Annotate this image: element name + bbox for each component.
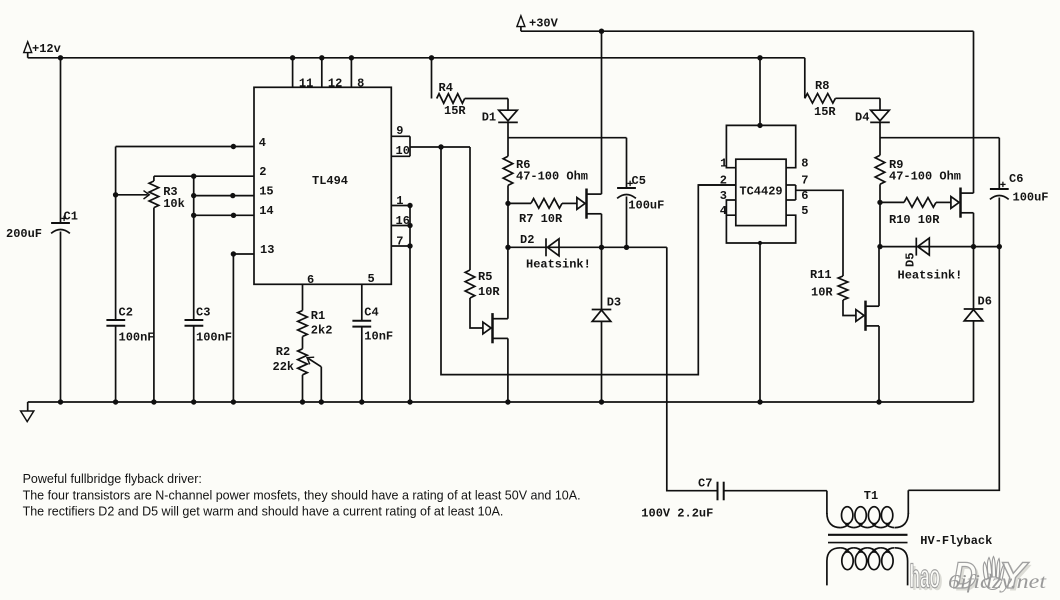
wire to C6 top	[998, 138, 1000, 189]
wire pin 2	[154, 175, 254, 177]
wire R3 bottom to ground	[153, 208, 155, 402]
ground symbol	[21, 411, 34, 422]
note text paragraph	[23, 472, 581, 519]
wire switch node to C7	[667, 247, 717, 490]
wire TC4429 pin 2 input	[698, 184, 736, 186]
junction ground C1	[58, 399, 63, 404]
wire TC4429 ground bracket pins 4-5	[726, 215, 795, 243]
svg-text:47-100 Ohm: 47-100 Ohm	[889, 170, 961, 184]
wire R7 to Q1 gate	[562, 202, 577, 204]
junction Q3 source node	[971, 244, 976, 249]
wire +12v to R4	[431, 58, 433, 99]
svg-text:D3: D3	[607, 296, 621, 310]
wire tc pins 6-7 tie	[795, 185, 797, 200]
junction pin 2 / C3 column	[191, 174, 196, 179]
svg-text:15R: 15R	[444, 104, 466, 118]
diode D4	[870, 110, 890, 122]
wire +30V to Q1 drain	[601, 31, 603, 194]
resistor R7	[531, 199, 562, 209]
wire +12v to TC4429 VDD	[759, 58, 761, 126]
wire ground stub	[27, 402, 29, 411]
power flag +30V	[517, 16, 525, 27]
svg-text:5: 5	[368, 272, 375, 286]
potentiometer R2	[298, 349, 308, 375]
junction pin12 on +12v rail	[319, 55, 324, 60]
svg-text:4: 4	[720, 204, 727, 218]
resistor R1	[298, 311, 308, 337]
junction ground R2 wiper	[319, 399, 324, 404]
svg-text:22k: 22k	[273, 360, 295, 374]
wire pin 13	[233, 253, 254, 255]
wire pin 16 stub	[391, 225, 410, 227]
resistor R8	[805, 94, 836, 104]
svg-text:15: 15	[259, 185, 273, 199]
wire +30V to Q3 drain	[973, 31, 975, 193]
svg-text:C4: C4	[364, 306, 378, 320]
capacitor C1	[51, 216, 70, 234]
wire R6 to switch node	[507, 185, 509, 247]
junction ground R2	[300, 399, 305, 404]
svg-text:9: 9	[396, 124, 403, 138]
junction R3 wiper to C2 column	[113, 192, 118, 197]
wire pin 11 to +12v	[292, 58, 294, 88]
junction TC4429 VDD on +12v rail	[757, 55, 762, 60]
wire Q4 source to ground	[878, 326, 880, 402]
junction R9/Q4 drain	[877, 244, 882, 249]
junction ground D3	[599, 399, 604, 404]
svg-text:4: 4	[259, 136, 266, 150]
wire TC4429 VDD bracket pins 1-8	[726, 125, 795, 167]
wire T1 primary right lead	[907, 490, 909, 514]
svg-text:100nF: 100nF	[196, 331, 232, 345]
transistor Q3	[951, 188, 974, 218]
svg-text:2: 2	[259, 165, 266, 179]
transistor Q4	[856, 301, 879, 331]
wire pins 1-16-7 to ground	[409, 206, 411, 403]
svg-text:47-100 Ohm: 47-100 Ohm	[516, 170, 588, 184]
wire Q2 drain to switch node	[507, 247, 509, 318]
svg-text:+12v: +12v	[32, 42, 61, 56]
capacitor C2	[106, 320, 125, 326]
diode D1	[498, 110, 518, 122]
wire C6 to right switch node	[998, 198, 1000, 247]
wire pin 10 stub	[391, 155, 410, 157]
resistor R10	[904, 198, 936, 208]
svg-text:100uF: 100uF	[1013, 191, 1049, 205]
svg-text:C6: C6	[1009, 172, 1023, 186]
watermark haoDIY.net	[910, 555, 1047, 599]
junction ground pin13	[231, 399, 236, 404]
junction pin 16	[407, 223, 412, 228]
capacitor C5	[617, 181, 636, 199]
junction Q1 drain on +30V rail	[599, 29, 604, 34]
capacitor C3	[185, 320, 204, 326]
junction ground TC4429	[757, 399, 762, 404]
wire TC4429 to ground	[759, 243, 761, 402]
svg-text:10R: 10R	[811, 286, 833, 300]
wire pin 1 stub	[391, 205, 410, 207]
svg-text:R10 10R: R10 10R	[889, 213, 940, 227]
resistor R11	[838, 276, 848, 300]
wire pin 5 to C4	[361, 284, 363, 321]
wire C1 to ground	[60, 232, 62, 403]
junction pin 1	[407, 203, 412, 208]
wire output to R5	[469, 147, 471, 270]
diode D6	[964, 309, 984, 321]
junction pin 15 / C3 column	[191, 193, 196, 198]
svg-text:100uF: 100uF	[628, 199, 664, 213]
wire C5 to switch node	[626, 197, 628, 248]
svg-text:200uF: 200uF	[6, 227, 42, 241]
wire right switch node to T1	[908, 247, 999, 491]
wire output node	[410, 146, 470, 148]
svg-text:2k2: 2k2	[311, 324, 333, 338]
wire pin 8 to +12v	[350, 58, 352, 88]
svg-text:R2: R2	[276, 345, 290, 359]
svg-text:Poweful fullbridge flyback dri: Poweful fullbridge flyback driver:	[23, 472, 202, 486]
wire right switch node to D6	[973, 247, 975, 309]
IC U1 TL494 body	[254, 87, 391, 284]
wire D3 to ground	[601, 321, 603, 402]
wire C3 column	[193, 176, 195, 320]
wire switch node to D3	[601, 247, 603, 309]
junction pin 7	[407, 243, 412, 248]
junction ground pins 1-16-7	[407, 399, 412, 404]
svg-text:The four transistors are N-cha: The four transistors are N-channel power…	[23, 489, 581, 503]
svg-text:7: 7	[396, 234, 403, 248]
junction Q1 source node	[599, 245, 604, 250]
diode D2	[546, 238, 559, 256]
wire R11 to Q4 gate	[843, 300, 855, 316]
svg-text:Heatsink!: Heatsink!	[526, 258, 591, 272]
svg-text:R8: R8	[815, 79, 829, 93]
wire Q1 source to switch node	[601, 214, 603, 248]
svg-text:D6: D6	[978, 295, 992, 309]
wire pin 9 stub	[391, 135, 410, 137]
wire to C5 top	[626, 138, 628, 188]
potentiometer R3	[149, 181, 159, 208]
wire +30V rail	[521, 30, 974, 32]
junction TC4429 ground	[758, 241, 762, 245]
svg-text:6: 6	[307, 273, 314, 287]
junction R6/Q2 drain	[505, 245, 510, 250]
wire R1 to R2	[302, 337, 304, 349]
diode D3	[592, 310, 612, 322]
svg-text:14: 14	[259, 204, 273, 218]
wire bootstrap to C6	[880, 137, 999, 139]
svg-text:7: 7	[801, 173, 808, 187]
svg-text:+30V: +30V	[529, 17, 559, 31]
junction on pin 4 wire	[231, 144, 236, 149]
junction C1 on +12v rail	[58, 55, 63, 60]
svg-text:12: 12	[328, 76, 342, 90]
capacitor C6	[990, 182, 1009, 200]
wire Q3 source to right switch node	[973, 213, 975, 247]
wire R8 to D4	[835, 97, 880, 99]
wire pin2 to R3 top	[153, 176, 155, 181]
wire C2 to ground	[115, 326, 117, 402]
wire Q4 drain to right switch node	[878, 247, 880, 307]
svg-text:5: 5	[801, 204, 808, 218]
junction R4 on +12v rail	[429, 55, 434, 60]
svg-text:C3: C3	[196, 306, 210, 320]
resistor R4	[437, 94, 465, 104]
wire ground rail	[28, 401, 974, 403]
svg-text:T1: T1	[864, 489, 878, 503]
junction pin8 on +12v rail	[349, 55, 354, 60]
wire to D4 anode	[879, 98, 881, 110]
junction C5 node	[624, 245, 629, 250]
wire R10 to Q3 gate	[936, 201, 951, 203]
svg-text:10k: 10k	[163, 197, 185, 211]
inductor T1 secondary winding	[827, 548, 908, 586]
wire TL494 output to TC4429 input	[441, 147, 736, 375]
svg-text:D2: D2	[520, 233, 534, 247]
svg-text:TC4429: TC4429	[739, 185, 782, 199]
wire T1 primary left lead	[826, 491, 828, 514]
svg-text:R7 10R: R7 10R	[519, 212, 563, 226]
svg-text:16: 16	[396, 214, 410, 228]
wire C4 to ground	[361, 327, 363, 402]
wire pin 4	[116, 146, 254, 148]
wire Q2 source to ground	[507, 338, 509, 402]
transistor Q1	[577, 189, 602, 219]
junction TC4429 VDD	[757, 123, 762, 128]
wire pin 13 to ground	[232, 254, 234, 402]
svg-text:15R: 15R	[814, 105, 836, 119]
inductor T1 primary winding	[827, 507, 908, 528]
junction C6 node	[997, 244, 1002, 249]
junction R6/R7	[505, 201, 510, 206]
junction on pin 14 wire	[231, 213, 236, 218]
svg-text:1: 1	[396, 194, 403, 208]
svg-text:C7: C7	[698, 477, 712, 491]
junction pin 14 / C3 column	[191, 213, 196, 218]
wire D4 to R9	[879, 123, 881, 156]
wire bootstrap to C5	[508, 137, 627, 139]
svg-text:2: 2	[720, 173, 727, 187]
junction pin11 on +12v rail	[290, 55, 295, 60]
svg-text:1: 1	[720, 156, 727, 170]
wire pin 7 stub	[391, 245, 410, 247]
svg-text:10R: 10R	[478, 285, 500, 299]
wire C3 to ground	[193, 326, 195, 402]
wire R4 to D1	[465, 98, 508, 100]
diode D5	[916, 238, 929, 256]
wire +12v rail	[28, 57, 805, 59]
junction on pin 15 wire	[230, 193, 235, 198]
svg-text:13: 13	[260, 243, 274, 257]
wire R2 to ground	[302, 375, 304, 402]
wire R5 to Q2 gate	[470, 298, 482, 328]
transformer T1 core	[828, 535, 908, 543]
transistor Q2	[483, 313, 508, 343]
wire TC4429 pins 3-4	[726, 200, 735, 215]
svg-text:HV-Flyback: HV-Flyback	[920, 534, 992, 548]
svg-text:C1: C1	[64, 210, 78, 224]
junction output to TC4429	[438, 144, 443, 149]
wire pins 9-10 tie	[409, 136, 411, 156]
junction ground C3	[191, 399, 196, 404]
capacitor C7	[718, 482, 724, 501]
svg-text:Heatsink!: Heatsink!	[898, 269, 963, 283]
wire to D1 anode	[507, 99, 509, 111]
wire right switch node B	[880, 246, 999, 248]
junction ground Q2 source	[505, 399, 510, 404]
wire pin 6 to R1	[302, 284, 304, 310]
svg-text:8: 8	[357, 76, 364, 90]
svg-text:R11: R11	[810, 268, 832, 282]
wire pin 12 to +12v	[321, 58, 323, 88]
svg-text:C2: C2	[119, 306, 133, 320]
svg-text:10nF: 10nF	[364, 330, 393, 344]
svg-text:10: 10	[396, 144, 410, 158]
wire +12v to R8	[804, 58, 806, 99]
svg-text:TL494: TL494	[312, 174, 348, 188]
junction ground R3	[151, 399, 156, 404]
svg-text:100nF: 100nF	[119, 331, 155, 345]
wire switch node A	[508, 246, 667, 248]
svg-text:C5: C5	[632, 174, 646, 188]
wire tc pin 7 stub	[786, 184, 796, 186]
svg-text:R4: R4	[439, 81, 453, 95]
resistor R5	[465, 270, 475, 298]
wire C7 to T1	[724, 490, 827, 492]
svg-text:hao: hao	[910, 558, 941, 595]
wire pin4 column to C2	[115, 147, 117, 321]
svg-text:D4: D4	[855, 111, 869, 125]
svg-text:R5: R5	[478, 270, 492, 284]
junction pin 13 corner	[231, 251, 236, 256]
svg-text:The rectifiers D2 and D5 will: The rectifiers D2 and D5 will get warm a…	[23, 505, 504, 519]
wire to R7	[508, 202, 531, 204]
junction ground Q4 source	[876, 399, 881, 404]
R3 wiper arrow	[116, 191, 150, 199]
resistor R6	[503, 156, 513, 185]
resistor R9	[875, 155, 885, 184]
wire pin 15	[194, 195, 254, 197]
wire to R10	[880, 201, 904, 203]
wire D6 to ground	[973, 321, 975, 402]
svg-text:D5: D5	[904, 253, 918, 267]
power flag +12v	[24, 42, 32, 53]
junction ground C4	[359, 399, 364, 404]
svg-text:3: 3	[720, 189, 727, 203]
wire +12v to C1	[60, 58, 62, 223]
junction R9/R10	[877, 200, 882, 205]
R2 wiper arrow	[307, 357, 321, 402]
junction ground C2	[113, 399, 118, 404]
svg-text:R1: R1	[311, 309, 325, 323]
svg-text:8: 8	[801, 156, 808, 170]
wire tc pin 6 stub	[786, 199, 796, 201]
svg-text:100V 2.2uF: 100V 2.2uF	[641, 507, 713, 521]
wire TC4429 output to R11	[796, 190, 843, 276]
svg-text:D1: D1	[482, 111, 496, 125]
IC U2 TC4429 body	[736, 159, 786, 225]
capacitor C4	[352, 321, 371, 327]
wire pin 14	[194, 214, 254, 216]
wire D1 to R6	[507, 123, 509, 157]
svg-text:11: 11	[299, 76, 313, 90]
svg-text:6ifidzy.net: 6ifidzy.net	[948, 571, 1047, 593]
wire R9 to right switch node	[879, 184, 881, 246]
